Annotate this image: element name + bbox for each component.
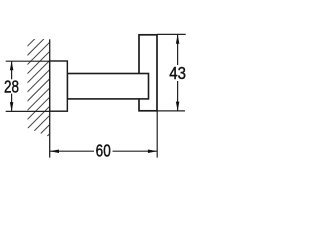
wall face line (left extension of 60 dim)	[49, 39, 51, 157]
extension line bottom of 43 dim	[157, 110, 185, 112]
arrow up 43	[176, 34, 180, 43]
dimension line 43	[177, 34, 179, 65]
dimension line 28	[11, 61, 13, 79]
arrow left 60	[50, 149, 59, 153]
svg-text:28: 28	[4, 77, 19, 97]
extension line bottom of 28 dim	[6, 110, 50, 112]
svg-text:60: 60	[96, 140, 111, 160]
right extension line of 60 dim	[156, 111, 158, 158]
arrow right 60	[148, 149, 157, 153]
arrow up 28	[10, 61, 14, 70]
extension line top of 28 dim	[6, 60, 50, 62]
dimension line 60	[50, 150, 94, 152]
arrow down 28	[10, 102, 14, 111]
wall rosette	[50, 61, 68, 111]
hook arm	[67, 74, 148, 99]
arrow down 43	[176, 102, 180, 111]
svg-text:43: 43	[169, 63, 186, 83]
extension line top of 43 dim	[157, 33, 186, 35]
hook front plate	[139, 35, 157, 111]
wall hatch	[25, 23, 51, 159]
